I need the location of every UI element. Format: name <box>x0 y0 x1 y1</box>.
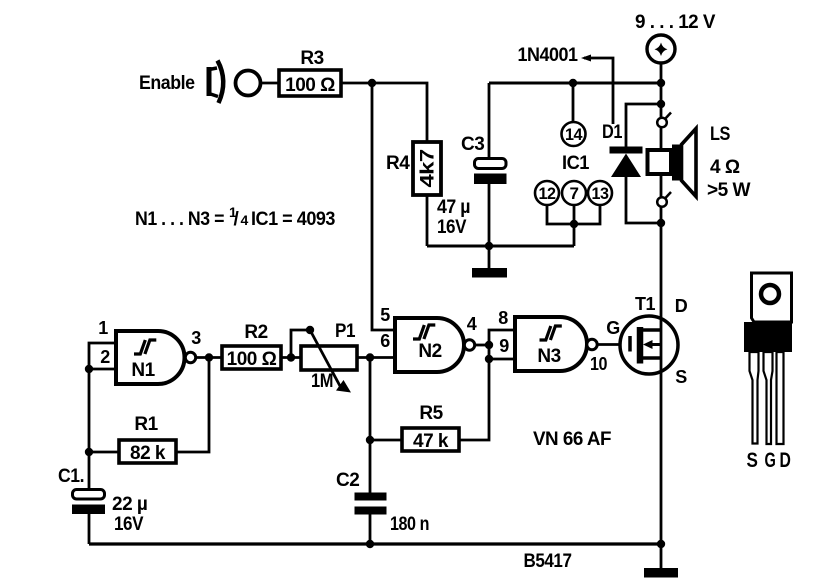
svg-text:G: G <box>765 449 776 472</box>
wire enable rail down to N2 pin 5 <box>372 83 395 330</box>
wire supply down to speaker <box>660 63 663 118</box>
svg-text:16V: 16V <box>114 514 144 535</box>
capacitor C3 <box>437 83 507 246</box>
resistor R3 <box>279 48 341 96</box>
svg-text:C3: C3 <box>461 134 484 155</box>
wire terminal to R3 <box>261 82 281 85</box>
connector plug symbol <box>209 61 223 104</box>
svg-text:180 n: 180 n <box>390 514 429 535</box>
svg-text:1: 1 <box>98 318 108 338</box>
svg-text:Enable: Enable <box>139 73 195 94</box>
svg-text:9 . . . 12 V: 9 . . . 12 V <box>635 12 716 33</box>
wire N3 out to gate of T1 <box>597 343 629 346</box>
diode D1 <box>602 104 661 223</box>
junction dot N1 out / R1 <box>205 353 213 361</box>
wire N2 out to 8/9 node <box>475 344 489 347</box>
svg-text:9: 9 <box>499 336 509 356</box>
svg-text:D: D <box>675 296 688 316</box>
wire ground bus <box>427 245 574 248</box>
ground symbol bottom right <box>644 544 678 578</box>
wire pin 12/13 join <box>547 205 600 224</box>
junction dot pin14 tap <box>569 79 577 87</box>
wire R3 to node and R4 top <box>341 83 427 143</box>
svg-text:3: 3 <box>191 328 201 348</box>
wire oscillator node down to C2 <box>369 358 372 494</box>
junction dot C2/bus <box>366 540 374 548</box>
IC1 pin 7 <box>562 181 586 205</box>
svg-text:6: 6 <box>380 331 390 351</box>
svg-text:R2: R2 <box>244 322 267 343</box>
resistor R1 <box>89 358 209 465</box>
svg-text:4: 4 <box>241 212 249 228</box>
node junction R3/rail <box>368 79 376 87</box>
nand gate N2 <box>395 318 475 372</box>
junction dot pins join <box>570 220 578 228</box>
svg-text:C2: C2 <box>336 470 359 491</box>
svg-text:10: 10 <box>590 354 607 374</box>
svg-text:1M: 1M <box>311 371 333 392</box>
svg-text:S: S <box>747 449 758 472</box>
svg-text:R1: R1 <box>134 414 158 435</box>
ground symbol under C3 <box>472 246 507 278</box>
junction dot wiper top <box>306 326 314 334</box>
mosfet T1 <box>620 294 688 387</box>
wire N1 input connector <box>89 343 116 369</box>
svg-text:P1: P1 <box>335 321 356 342</box>
svg-text:100 Ω: 100 Ω <box>285 75 335 96</box>
svg-text:82 k: 82 k <box>130 443 166 464</box>
svg-text:N2: N2 <box>418 341 441 362</box>
1N4001 value label with pointer <box>518 45 614 124</box>
wire left rail N1 inputs to C1 <box>88 369 91 490</box>
TO-220 package drawing <box>744 273 792 472</box>
IC1 pin 13 <box>588 181 612 205</box>
svg-text:100 Ω: 100 Ω <box>227 349 277 370</box>
svg-text:5: 5 <box>380 305 390 325</box>
junction dot bus/supply <box>657 79 665 87</box>
wire wiper link over P1 <box>291 330 310 358</box>
junction dot R1/C1 <box>85 448 93 456</box>
junction dot D1 branch bottom <box>657 219 665 227</box>
svg-text:16V: 16V <box>437 217 467 238</box>
svg-text:D1: D1 <box>602 122 623 143</box>
svg-text:47 k: 47 k <box>413 431 449 452</box>
svg-text:12: 12 <box>539 184 556 203</box>
potentiometer P1 <box>301 321 357 393</box>
loudspeaker LS <box>648 124 751 201</box>
svg-text:R3: R3 <box>300 48 323 69</box>
svg-text:C1.: C1. <box>58 466 84 487</box>
wire bottom bus <box>89 542 661 545</box>
wire top supply bus <box>489 82 661 85</box>
svg-text:N3: N3 <box>537 346 560 367</box>
supply terminal 9-12V <box>635 12 716 63</box>
nand gate N3 <box>515 317 597 371</box>
wire N1 output to R2 <box>196 356 222 359</box>
svg-text:4: 4 <box>467 314 477 334</box>
junction dot source/bus <box>657 540 665 548</box>
wire speaker to lower connector <box>660 174 663 198</box>
svg-text:14: 14 <box>565 125 583 144</box>
svg-text:VN 66 AF: VN 66 AF <box>533 429 611 450</box>
connector circle terminal <box>236 71 261 96</box>
resistor R4 <box>386 142 441 195</box>
svg-text:7: 7 <box>570 184 579 203</box>
svg-text:4k7: 4k7 <box>418 150 439 188</box>
capacitor C1 <box>58 466 147 544</box>
resistor R2 <box>222 322 281 370</box>
svg-text:B5417: B5417 <box>524 551 572 572</box>
svg-text:R4: R4 <box>386 153 410 174</box>
connector top of speaker <box>657 113 671 128</box>
wire N3 input connector <box>489 330 515 359</box>
svg-text:LS: LS <box>710 124 730 145</box>
wire pin 7 to ground bus <box>573 205 576 246</box>
junction dot C3/ground <box>485 242 493 250</box>
junction dot R5 tap <box>366 436 374 444</box>
svg-text:22 µ: 22 µ <box>112 494 147 515</box>
svg-text:N1: N1 <box>131 360 155 381</box>
svg-text:13: 13 <box>592 184 609 203</box>
junction dot N1 inputs <box>85 365 93 373</box>
junction dot R2/P1 <box>287 353 295 361</box>
resistor R5 <box>370 359 489 452</box>
junction dot D1 branch top <box>657 100 665 108</box>
svg-text:2: 2 <box>100 347 110 367</box>
nand gate N1 <box>116 331 196 384</box>
svg-text:IC1 = 4093: IC1 = 4093 <box>251 209 335 230</box>
IC1 pin 12 <box>535 181 559 205</box>
wire to speaker <box>660 128 663 152</box>
connector bottom of speaker <box>657 192 671 207</box>
svg-text:1N4001: 1N4001 <box>518 45 579 66</box>
wire lower connector to drain node <box>660 207 663 224</box>
svg-text:D: D <box>780 449 791 472</box>
wire P1 to N2 pin 6 <box>357 356 395 359</box>
svg-text:47 µ: 47 µ <box>437 197 470 218</box>
wire R4 bottom to ground bus <box>426 195 429 246</box>
svg-text:N1 . . . N3 =: N1 . . . N3 = <box>135 209 224 230</box>
svg-text:4 Ω: 4 Ω <box>710 157 740 178</box>
svg-text:R5: R5 <box>419 403 443 424</box>
svg-text:T1: T1 <box>635 294 655 314</box>
junction dot N2 out <box>485 341 493 349</box>
capacitor C2 <box>336 470 429 544</box>
wire bus to pin 14 <box>572 83 575 122</box>
wire drain-source main vertical <box>660 223 663 545</box>
IC1 pin 14 <box>562 122 586 146</box>
wire R2 to P1 <box>281 356 301 359</box>
junction dot oscillator node <box>366 353 374 361</box>
svg-text:G: G <box>606 318 620 338</box>
svg-text:IC1: IC1 <box>562 153 590 174</box>
svg-text:>5 W: >5 W <box>707 180 751 201</box>
N1..N3 equation note <box>135 204 335 230</box>
svg-text:S: S <box>675 367 687 387</box>
svg-text:8: 8 <box>498 308 508 328</box>
junction dot pin 9 / R5 <box>485 355 493 363</box>
